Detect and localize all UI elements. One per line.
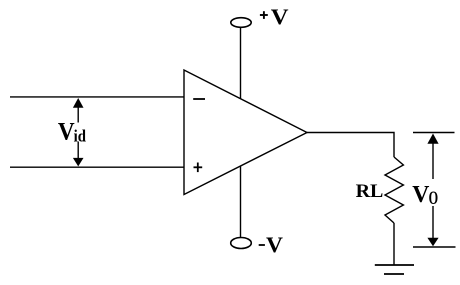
svg-text:id: id: [74, 128, 86, 146]
svg-text:V: V: [58, 118, 75, 146]
svg-text:V: V: [412, 182, 430, 208]
svg-text:RL: RL: [356, 182, 384, 202]
svg-text:O: O: [429, 189, 438, 209]
svg-text:V: V: [271, 5, 289, 30]
svg-text:V: V: [266, 233, 283, 257]
